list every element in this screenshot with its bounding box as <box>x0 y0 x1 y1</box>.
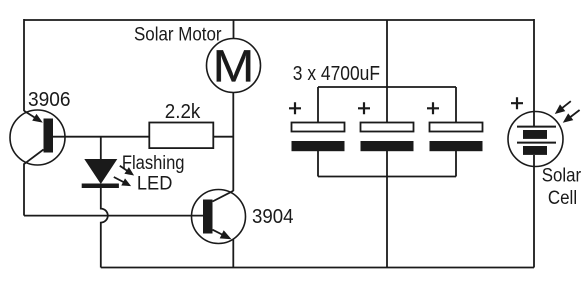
Q1 collector wire <box>23 164 25 216</box>
left rail wire (to Q1 emitter) <box>23 19 25 111</box>
capacitor bank bottom bus wire <box>318 176 456 178</box>
svg-text:Flashing: Flashing <box>122 153 185 174</box>
svg-text:3906: 3906 <box>28 89 71 111</box>
top rail wire <box>24 19 534 21</box>
bottom rail wire <box>101 267 534 269</box>
wire motor to Q2 collector <box>232 93 234 192</box>
capacitor bank top lead wire <box>386 20 388 123</box>
motor top lead wire <box>233 20 235 39</box>
capacitor C2 <box>358 102 414 151</box>
capacitor bank bottom lead wire <box>386 151 388 268</box>
solar cell PV1 <box>508 97 563 166</box>
svg-text:2.2k: 2.2k <box>165 101 201 123</box>
right rail upper wire (to solar cell) <box>533 19 535 127</box>
label Solar Cell <box>542 166 582 209</box>
transistor Q2 2N3904 <box>192 190 246 244</box>
label Flashing LED <box>122 153 185 195</box>
svg-text:3904: 3904 <box>252 206 294 228</box>
wire Q1 collector to Q2 base <box>24 215 203 217</box>
Q1 base wire <box>53 136 149 138</box>
capacitor bank top bus wire <box>318 86 456 88</box>
right rail lower wire (from solar cell) <box>533 155 535 268</box>
LED cathode wire with hop over <box>101 187 108 268</box>
svg-text:Solar Motor: Solar Motor <box>134 25 222 46</box>
Q2 emitter wire <box>232 240 234 268</box>
LED D1 <box>82 159 134 188</box>
svg-text:Solar: Solar <box>542 166 582 187</box>
capacitor C3 <box>427 87 483 177</box>
motor M1 <box>207 39 261 93</box>
resistor R1 <box>149 123 213 149</box>
light arrows into solar cell <box>555 101 580 123</box>
svg-text:3 x 4700uF: 3 x 4700uF <box>293 63 380 85</box>
wire resistor to motor node <box>213 136 233 138</box>
svg-text:M: M <box>213 41 255 92</box>
capacitor C1 <box>289 87 345 177</box>
svg-text:LED: LED <box>137 174 173 195</box>
LED anode lead wire <box>100 137 102 159</box>
transistor Q1 2N3906 <box>10 110 65 165</box>
svg-text:Cell: Cell <box>548 188 577 209</box>
